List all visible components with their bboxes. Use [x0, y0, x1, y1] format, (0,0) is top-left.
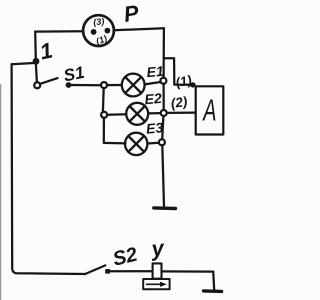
wire: node 1 to left rail	[12, 63, 36, 64]
lamp E2	[126, 103, 148, 125]
wire: relay Y to right corner	[162, 270, 214, 272]
wire: E2 terminal to lamp E2	[107, 113, 126, 116]
wire: right corner down to ground	[213, 272, 214, 290]
wire: meter P left lead to corner	[35, 30, 83, 33]
relay Y actuator arrow	[147, 283, 161, 285]
wire: E2 junction to ammeter terminal (2)	[167, 111, 196, 114]
meter P terminal dot right	[105, 28, 111, 34]
svg-text:A: A	[202, 92, 217, 128]
wire: S2 to relay Y	[110, 270, 153, 272]
wire: meter P right lead to top-right vertical	[114, 28, 164, 30]
wire: node 1 down to switch S1	[36, 65, 37, 82]
svg-text:(3): (3)	[93, 16, 105, 27]
svg-text:E2: E2	[144, 90, 163, 107]
wire: S1 to lamp E1 left terminal	[71, 84, 101, 86]
wire: lamp E1 to right terminal	[145, 82, 161, 84]
relay Y actuator box	[143, 279, 169, 289]
relay Y coil box	[153, 263, 162, 278]
lamp E1 left terminal	[101, 82, 107, 88]
lamp E1	[122, 74, 145, 97]
switch S1 blade	[40, 78, 57, 84]
meter P body	[83, 15, 114, 46]
lamp E2 left terminal	[101, 112, 107, 118]
svg-text:S1: S1	[62, 63, 86, 86]
wire: lamp E3 to right terminal	[147, 142, 159, 145]
wire: right bus E1 terminal to E2 junction	[162, 84, 164, 110]
wire: E1 left terminal to lamp	[107, 84, 122, 86]
svg-text:E1: E1	[146, 63, 165, 80]
scan edge artifact	[0, 84, 1, 300]
lamp E2 right junction terminal	[161, 110, 167, 116]
wire: left rail down and bottom run to switch S2	[12, 64, 86, 274]
switch S2 blade	[85, 265, 105, 274]
wire: right bus E3 terminal down to ground	[162, 145, 164, 206]
lamp E3	[125, 133, 147, 155]
wire: right bus E2 junction to E3 terminal	[162, 116, 163, 139]
ground (bottom right)	[204, 289, 222, 293]
ammeter box A	[196, 86, 224, 134]
switch S2 terminal	[105, 269, 110, 274]
node 1 junction dot	[33, 58, 40, 65]
wire: left column E1 to E2 terminal	[102, 88, 105, 112]
lamp E3 right terminal	[159, 139, 165, 145]
wire: right bus vertical from top wire to lamp E1 right terminal	[162, 28, 165, 77]
ground (lamp bus)	[154, 206, 176, 210]
wire: branch to ammeter terminal (1)	[164, 58, 193, 85]
svg-text:(2): (2)	[170, 94, 189, 111]
meter P terminal dot left	[91, 29, 97, 35]
svg-text:E3: E3	[145, 119, 164, 136]
wire: lamp E2 to right junction	[148, 112, 161, 115]
wire: vertical from corner down to node 1	[34, 32, 37, 60]
switch S1 right terminal	[66, 82, 72, 88]
junction dot at ammeter terminal (1)	[190, 82, 195, 87]
switch S1 left terminal	[34, 82, 40, 88]
lamp E1 right terminal	[160, 78, 166, 84]
wire: left column E2 terminal down and to lamp E3	[104, 118, 126, 144]
